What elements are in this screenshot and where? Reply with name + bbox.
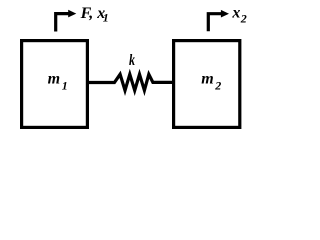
spring k label	[129, 51, 135, 69]
mass m2 box	[174, 41, 240, 128]
mass m1 box	[22, 41, 88, 128]
svg-text:x: x	[231, 5, 240, 22]
svg-text:F, x: F, x	[80, 5, 106, 22]
svg-text:m: m	[201, 71, 213, 88]
mass m1 label	[48, 71, 68, 93]
label x2	[231, 5, 246, 26]
displacement arrow on m2 (elbow with arrowhead)	[208, 10, 229, 31]
svg-text:1: 1	[62, 79, 68, 93]
svg-text:1: 1	[103, 11, 109, 25]
svg-text:k: k	[129, 51, 135, 69]
force/displacement arrow on m1 (elbow with arrowhead)	[56, 10, 77, 32]
svg-text:2: 2	[240, 12, 247, 26]
mass m2 label	[201, 71, 221, 93]
spring k between m1 and m2	[89, 74, 172, 90]
svg-text:2: 2	[214, 78, 221, 92]
label F, x1	[80, 5, 109, 25]
svg-text:m: m	[48, 71, 60, 88]
